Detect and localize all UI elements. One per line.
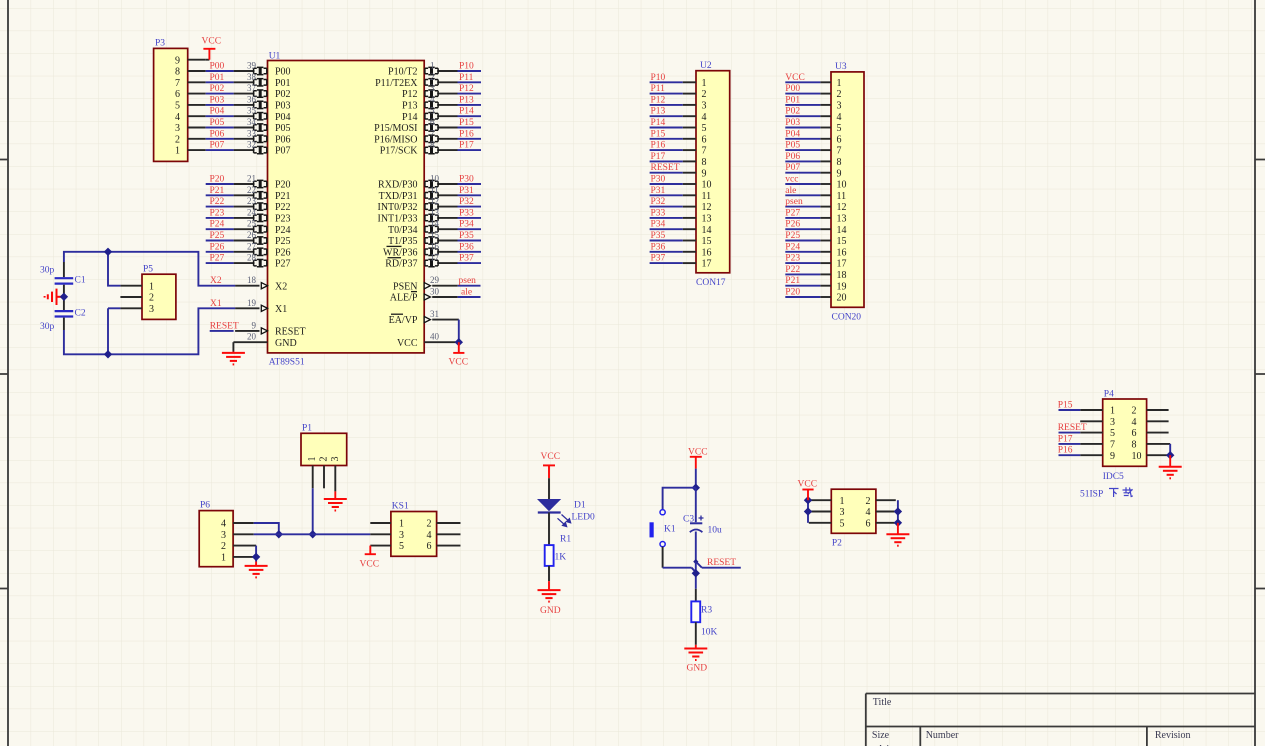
svg-text:6: 6 bbox=[175, 89, 180, 100]
wire C3 bottom to RESET node with diagonal bbox=[693, 532, 702, 568]
svg-text:K1: K1 bbox=[664, 525, 676, 535]
ground GND below R3 bbox=[684, 645, 707, 674]
wire net P12 + net label bbox=[458, 84, 482, 94]
resistor R1 1K bbox=[545, 535, 572, 566]
text 51ISP download label bbox=[1080, 487, 1133, 499]
svg-text:1: 1 bbox=[149, 281, 154, 292]
svg-text:P4: P4 bbox=[1104, 390, 1114, 400]
svg-text:P04: P04 bbox=[210, 107, 225, 117]
svg-text:51ISP: 51ISP bbox=[1080, 490, 1103, 500]
svg-text:ale: ale bbox=[785, 186, 796, 196]
wire net P05 (P3 to U1) + net label bbox=[206, 118, 234, 128]
wire D1 to R1 bbox=[548, 513, 550, 546]
svg-text:P10: P10 bbox=[651, 73, 666, 83]
svg-text:28: 28 bbox=[247, 253, 257, 263]
wire net P21 to U3 pin 19 + net label bbox=[785, 276, 820, 286]
svg-text:P27: P27 bbox=[210, 254, 225, 264]
ground between C1 and C2 (left-pointing) bbox=[45, 289, 69, 305]
svg-text:P6: P6 bbox=[200, 501, 210, 511]
wire net P22 to U3 pin 18 + net label bbox=[785, 265, 820, 275]
svg-text:7: 7 bbox=[175, 78, 180, 89]
wire net P15 to U2 pin 6 + net label bbox=[650, 129, 683, 139]
wire EA to VCC + junction bbox=[455, 320, 463, 347]
svg-text:22: 22 bbox=[247, 185, 256, 195]
svg-text:P3: P3 bbox=[155, 39, 165, 49]
svg-text:9: 9 bbox=[702, 168, 707, 179]
power VCC above K1/C3 bbox=[688, 448, 708, 469]
svg-text:RESET: RESET bbox=[707, 558, 736, 568]
connector KS1 bbox=[370, 502, 460, 557]
svg-text:CON17: CON17 bbox=[696, 278, 726, 288]
wire P6 pin 2 to pin 1 and ground + junction bbox=[252, 546, 260, 562]
wire net P06 to U3 pin 8 + net label bbox=[785, 152, 820, 162]
capacitor C3 10u (polarized) bbox=[683, 488, 722, 536]
svg-text:5: 5 bbox=[837, 123, 842, 134]
svg-text:9: 9 bbox=[252, 320, 257, 330]
svg-text:TXD/P31: TXD/P31 bbox=[379, 191, 418, 202]
svg-text:8: 8 bbox=[1132, 440, 1137, 451]
wire R1 to GND bbox=[548, 566, 550, 581]
svg-text:3: 3 bbox=[330, 457, 341, 462]
svg-text:Size: Size bbox=[872, 730, 890, 741]
connector P6 bbox=[199, 501, 256, 567]
svg-text:P21: P21 bbox=[210, 186, 225, 196]
wire crystal top loop: C1 to X2 and P5.1 bbox=[64, 252, 235, 286]
svg-text:34: 34 bbox=[247, 117, 257, 127]
svg-text:5: 5 bbox=[1110, 428, 1115, 439]
svg-text:P27: P27 bbox=[275, 259, 291, 270]
svg-text:2: 2 bbox=[149, 293, 154, 304]
ground at U1 pin 20 bbox=[222, 342, 245, 364]
svg-text:27: 27 bbox=[247, 241, 257, 251]
svg-text:RESET: RESET bbox=[275, 327, 306, 338]
net label X2 bbox=[210, 276, 222, 286]
svg-text:5: 5 bbox=[840, 518, 845, 529]
wire net P36 to U2 pin 16 + net label bbox=[650, 242, 683, 252]
svg-text:P05: P05 bbox=[275, 123, 291, 134]
wire net psen + net label bbox=[458, 276, 481, 286]
wire net P00 to U3 pin 2 + net label bbox=[785, 84, 820, 94]
svg-text:P17: P17 bbox=[459, 141, 474, 151]
wire net P20 to U3 pin 20 + net label bbox=[785, 288, 820, 298]
svg-text:P02: P02 bbox=[210, 84, 225, 94]
wire net P17 to P4 + net label bbox=[1058, 434, 1081, 444]
svg-text:P06: P06 bbox=[210, 129, 225, 139]
svg-text:18: 18 bbox=[247, 275, 257, 285]
svg-text:C2: C2 bbox=[75, 309, 86, 319]
svg-text:P26: P26 bbox=[210, 242, 225, 252]
svg-text:P13: P13 bbox=[402, 101, 418, 112]
svg-text:3: 3 bbox=[149, 304, 154, 315]
svg-text:VCC: VCC bbox=[688, 448, 708, 458]
svg-text:2: 2 bbox=[427, 519, 432, 530]
svg-text:P07: P07 bbox=[275, 146, 291, 157]
svg-text:CON20: CON20 bbox=[832, 313, 862, 323]
svg-text:2: 2 bbox=[1132, 406, 1137, 417]
svg-text:19: 19 bbox=[247, 298, 257, 308]
svg-text:P06: P06 bbox=[275, 134, 291, 145]
svg-text:10: 10 bbox=[837, 180, 847, 191]
wire net P13 to U2 pin 4 + net label bbox=[650, 107, 683, 117]
svg-text:P00: P00 bbox=[275, 67, 291, 78]
svg-text:1: 1 bbox=[837, 78, 842, 89]
ground at P1 pin 3 bbox=[324, 491, 347, 510]
wire net P37 + net label bbox=[458, 254, 482, 264]
connector U2 CON17 bbox=[683, 61, 730, 288]
svg-text:P16: P16 bbox=[459, 129, 474, 139]
svg-text:P20: P20 bbox=[210, 175, 225, 185]
svg-text:1: 1 bbox=[702, 78, 707, 89]
svg-text:37: 37 bbox=[247, 83, 257, 93]
wire net P24 + net label bbox=[206, 220, 234, 230]
svg-text:P03: P03 bbox=[275, 101, 291, 112]
wire net P35 to U2 pin 15 + net label bbox=[650, 231, 683, 241]
ground GND below R1 bbox=[538, 581, 561, 616]
svg-text:23: 23 bbox=[247, 196, 257, 206]
svg-text:P03: P03 bbox=[210, 95, 225, 105]
svg-text:P02: P02 bbox=[275, 89, 291, 100]
wire net RESET to U2 pin 9 + net label bbox=[650, 163, 683, 173]
wire net ale to U3 pin 11 + net label bbox=[785, 186, 820, 196]
svg-text:8: 8 bbox=[175, 67, 180, 78]
svg-text:P16/MISO: P16/MISO bbox=[374, 134, 417, 145]
connector P5 (crystal) bbox=[120, 265, 175, 320]
svg-text:EA/VP: EA/VP bbox=[389, 315, 418, 326]
svg-text:3: 3 bbox=[175, 123, 180, 134]
svg-text:psen: psen bbox=[785, 197, 803, 207]
svg-text:P21: P21 bbox=[785, 276, 800, 286]
wire net P14 to U2 pin 5 + net label bbox=[650, 118, 683, 128]
svg-text:P36: P36 bbox=[651, 242, 666, 252]
svg-text:14: 14 bbox=[837, 225, 847, 236]
svg-text:8: 8 bbox=[702, 157, 707, 168]
IC U1 AT89S51 bbox=[233, 52, 458, 368]
svg-text:2: 2 bbox=[837, 89, 842, 100]
svg-text:30p: 30p bbox=[40, 322, 55, 332]
svg-text:2: 2 bbox=[866, 496, 871, 507]
svg-text:P35: P35 bbox=[459, 231, 474, 241]
svg-text:P13: P13 bbox=[651, 107, 666, 117]
wire R3 to GND bbox=[695, 622, 697, 645]
wire crystal bottom loop: C2 to X1 and P5.3 bbox=[64, 308, 235, 354]
svg-text:2: 2 bbox=[175, 134, 180, 145]
wire net P25 + net label bbox=[206, 231, 234, 241]
capacitor C2 30p bbox=[40, 298, 86, 332]
svg-text:P21: P21 bbox=[275, 191, 291, 202]
svg-text:ale: ale bbox=[461, 288, 472, 298]
svg-text:3: 3 bbox=[702, 101, 707, 112]
connector U3 CON20 bbox=[820, 62, 864, 323]
wire net P12 to U2 pin 3 + net label bbox=[650, 95, 683, 105]
svg-text:RESET: RESET bbox=[1058, 423, 1087, 433]
svg-text:6: 6 bbox=[430, 117, 435, 127]
svg-text:7: 7 bbox=[837, 146, 842, 157]
svg-text:17: 17 bbox=[702, 259, 712, 270]
svg-text:P26: P26 bbox=[785, 220, 800, 230]
svg-text:P07: P07 bbox=[785, 163, 800, 173]
wire net P03 (P3 to U1) + net label bbox=[206, 95, 234, 105]
svg-text:P14: P14 bbox=[402, 112, 418, 123]
wire main bus P6.3 to KS1.3 bbox=[254, 533, 371, 535]
svg-text:P24: P24 bbox=[785, 242, 800, 252]
svg-text:16: 16 bbox=[430, 241, 440, 251]
wire net P00 (P3 to U1) + net label bbox=[206, 62, 234, 72]
svg-text:P20: P20 bbox=[275, 180, 291, 191]
wire net RESET to P4 + net label bbox=[1058, 423, 1087, 433]
svg-text:3: 3 bbox=[399, 530, 404, 541]
svg-text:14: 14 bbox=[702, 225, 712, 236]
svg-text:4: 4 bbox=[702, 112, 707, 123]
svg-text:2: 2 bbox=[221, 541, 226, 552]
wire net P05 to U3 pin 7 + net label bbox=[785, 141, 820, 151]
wire P2 right pins 2,4,6 + junctions bbox=[894, 500, 902, 527]
wire net P33 to U2 pin 13 + net label bbox=[650, 208, 683, 218]
wire net VCC to U3 pin 1 + net label bbox=[785, 73, 820, 83]
svg-text:1: 1 bbox=[221, 553, 226, 564]
svg-text:10: 10 bbox=[1132, 451, 1142, 462]
svg-text:P17/SCK: P17/SCK bbox=[380, 146, 419, 157]
svg-text:P02: P02 bbox=[785, 107, 800, 117]
wire net P03 to U3 pin 5 + net label bbox=[785, 118, 820, 128]
svg-text:P22: P22 bbox=[210, 197, 225, 207]
svg-text:RD/P37: RD/P37 bbox=[385, 259, 417, 270]
wire net P07 (P3 to U1) + net label bbox=[206, 141, 234, 151]
svg-text:5: 5 bbox=[399, 541, 404, 552]
svg-text:R1: R1 bbox=[560, 535, 571, 545]
svg-text:4: 4 bbox=[221, 519, 226, 530]
wire P6 pin 4 to bus + junction bbox=[254, 523, 283, 539]
svg-text:P2: P2 bbox=[832, 539, 842, 549]
svg-text:P23: P23 bbox=[210, 208, 225, 218]
wire VCC down to junction, branch to K1 bbox=[663, 469, 700, 510]
svg-text:VCC: VCC bbox=[397, 338, 418, 349]
wire P1 pin 1 down to bus bbox=[309, 488, 317, 538]
wire branch to P5 pin 3 + junction bbox=[104, 308, 121, 358]
wire net P01 to U3 pin 3 + net label bbox=[785, 95, 820, 105]
svg-text:9: 9 bbox=[1110, 451, 1115, 462]
svg-text:10: 10 bbox=[702, 180, 712, 191]
wire net P26 to U3 pin 14 + net label bbox=[785, 220, 820, 230]
svg-text:40: 40 bbox=[430, 332, 440, 342]
svg-text:29: 29 bbox=[430, 275, 440, 285]
svg-text:4: 4 bbox=[866, 507, 871, 518]
svg-text:P34: P34 bbox=[459, 220, 474, 230]
wire net P15 to P4 + net label bbox=[1058, 401, 1081, 411]
svg-text:6: 6 bbox=[1132, 428, 1137, 439]
svg-text:P15: P15 bbox=[1058, 401, 1073, 411]
svg-text:X2: X2 bbox=[210, 276, 222, 286]
svg-text:8: 8 bbox=[430, 140, 435, 150]
svg-text:9: 9 bbox=[837, 168, 842, 179]
svg-text:P12: P12 bbox=[402, 89, 418, 100]
svg-text:3: 3 bbox=[430, 83, 435, 93]
svg-text:P01: P01 bbox=[275, 78, 291, 89]
wire net ale + net label bbox=[458, 288, 481, 298]
svg-text:ALE/P: ALE/P bbox=[390, 293, 418, 304]
svg-text:U1: U1 bbox=[269, 52, 281, 62]
wire net P02 to U3 pin 4 + net label bbox=[785, 107, 820, 117]
svg-text:1: 1 bbox=[840, 496, 845, 507]
svg-text:P31: P31 bbox=[651, 186, 666, 196]
svg-text:GND: GND bbox=[687, 664, 708, 674]
svg-text:P06: P06 bbox=[785, 152, 800, 162]
svg-text:3: 3 bbox=[1110, 417, 1115, 428]
svg-text:24: 24 bbox=[247, 207, 257, 217]
svg-text:10K: 10K bbox=[701, 628, 718, 638]
svg-text:15: 15 bbox=[837, 236, 847, 247]
svg-text:P05: P05 bbox=[785, 141, 800, 151]
svg-text:30p: 30p bbox=[40, 266, 55, 276]
svg-text:6: 6 bbox=[427, 541, 432, 552]
svg-text:39: 39 bbox=[247, 61, 257, 71]
svg-text:1: 1 bbox=[307, 457, 318, 462]
svg-text:P23: P23 bbox=[275, 214, 291, 225]
svg-text:3: 3 bbox=[837, 101, 842, 112]
power VCC (U1 pin 40), bar below bbox=[449, 342, 469, 367]
svg-text:U2: U2 bbox=[700, 61, 712, 71]
svg-text:10u: 10u bbox=[708, 526, 723, 536]
svg-text:T1/P35: T1/P35 bbox=[388, 236, 417, 247]
svg-text:RESET: RESET bbox=[210, 321, 239, 331]
wire net P27 + net label bbox=[206, 254, 234, 264]
svg-text:VCC: VCC bbox=[798, 480, 818, 490]
svg-text:P11: P11 bbox=[459, 73, 474, 83]
svg-text:X2: X2 bbox=[275, 281, 287, 292]
svg-text:2: 2 bbox=[319, 457, 330, 462]
wire net P30 + net label bbox=[458, 175, 482, 185]
wire net P15 + net label bbox=[458, 118, 482, 128]
svg-text:P24: P24 bbox=[275, 225, 291, 236]
power VCC at KS1 pin 5 (bar below) bbox=[360, 546, 380, 570]
wire net P13 + net label bbox=[458, 95, 482, 105]
svg-text:D1: D1 bbox=[574, 501, 586, 511]
svg-text:P17: P17 bbox=[651, 152, 666, 162]
svg-text:12: 12 bbox=[837, 202, 847, 213]
svg-text:4: 4 bbox=[1132, 417, 1137, 428]
wire net P25 to U3 pin 15 + net label bbox=[785, 231, 820, 241]
svg-text:5: 5 bbox=[430, 106, 435, 116]
svg-text:1: 1 bbox=[399, 519, 404, 530]
svg-text:6: 6 bbox=[837, 134, 842, 145]
svg-text:13: 13 bbox=[430, 207, 440, 217]
svg-text:P32: P32 bbox=[459, 197, 474, 207]
ground at P6 pins 1,2 bbox=[245, 562, 268, 578]
wire net RESET (to right) + net label bbox=[702, 558, 741, 568]
wire net P16 + net label bbox=[458, 129, 482, 139]
svg-text:VCC: VCC bbox=[541, 452, 561, 462]
svg-text:1: 1 bbox=[175, 146, 180, 157]
power VCC above D1 bbox=[541, 452, 561, 478]
svg-text:INT1/P33: INT1/P33 bbox=[378, 214, 418, 225]
wire net P32 + net label bbox=[458, 197, 482, 207]
power VCC (P3 pin 9) bbox=[202, 37, 222, 60]
wire VCC to D1 bbox=[548, 478, 550, 499]
svg-text:P32: P32 bbox=[651, 197, 666, 207]
svg-text:P11/T2EX: P11/T2EX bbox=[375, 78, 418, 89]
svg-text:PSEN: PSEN bbox=[393, 281, 417, 292]
svg-text:16: 16 bbox=[702, 247, 712, 258]
svg-text:P00: P00 bbox=[210, 62, 225, 72]
connector P4 IDC5 bbox=[1080, 390, 1170, 483]
svg-text:P15: P15 bbox=[459, 118, 474, 128]
svg-text:P27: P27 bbox=[785, 208, 800, 218]
svg-text:X1: X1 bbox=[275, 304, 287, 315]
wire net P34 + net label bbox=[458, 220, 482, 230]
wire net P11 + net label bbox=[458, 73, 482, 83]
wire P4 pin 8 to pin 10 + junction bbox=[1166, 444, 1174, 460]
svg-text:21: 21 bbox=[247, 174, 256, 184]
svg-text:vcc: vcc bbox=[785, 175, 798, 185]
wire net P16 to P4 + net label bbox=[1058, 446, 1081, 456]
svg-text:3: 3 bbox=[840, 507, 845, 518]
svg-text:2: 2 bbox=[430, 72, 435, 82]
svg-text:P35: P35 bbox=[651, 231, 666, 241]
wire net P24 to U3 pin 16 + net label bbox=[785, 242, 820, 252]
connector P3 bbox=[154, 39, 206, 162]
svg-text:T0/P34: T0/P34 bbox=[388, 225, 417, 236]
svg-text:38: 38 bbox=[247, 72, 257, 82]
svg-text:P26: P26 bbox=[275, 247, 291, 258]
svg-text:P30: P30 bbox=[651, 175, 666, 185]
wire net P06 (P3 to U1) + net label bbox=[206, 129, 234, 139]
svg-text:P22: P22 bbox=[275, 202, 291, 213]
wire net P33 + net label bbox=[458, 208, 482, 218]
svg-text:P25: P25 bbox=[275, 236, 291, 247]
capacitor C1 30p bbox=[40, 262, 86, 296]
svg-text:4: 4 bbox=[175, 112, 180, 123]
wire node to R3 + junction bbox=[692, 562, 700, 602]
svg-text:1: 1 bbox=[430, 61, 435, 71]
wire net P02 (P3 to U1) + net label bbox=[206, 84, 234, 94]
svg-text:8: 8 bbox=[837, 157, 842, 168]
svg-text:P12: P12 bbox=[651, 95, 666, 105]
wire net P36 + net label bbox=[458, 242, 482, 252]
svg-text:P23: P23 bbox=[785, 254, 800, 264]
svg-text:U3: U3 bbox=[835, 62, 847, 72]
svg-text:R3: R3 bbox=[701, 606, 712, 616]
svg-text:32: 32 bbox=[247, 140, 256, 150]
svg-text:15: 15 bbox=[430, 230, 440, 240]
wire net P22 + net label bbox=[206, 197, 234, 207]
wire net P07 to U3 pin 9 + net label bbox=[785, 163, 820, 173]
svg-text:4: 4 bbox=[837, 112, 842, 123]
wire net P04 to U3 pin 6 + net label bbox=[785, 129, 820, 139]
svg-text:6: 6 bbox=[702, 134, 707, 145]
connector P2 bbox=[809, 489, 896, 548]
svg-text:P31: P31 bbox=[459, 186, 474, 196]
svg-text:33: 33 bbox=[247, 128, 257, 138]
svg-text:P15/MOSI: P15/MOSI bbox=[374, 123, 417, 134]
svg-text:12: 12 bbox=[430, 196, 439, 206]
svg-text:P16: P16 bbox=[651, 141, 666, 151]
svg-text:3: 3 bbox=[221, 530, 226, 541]
svg-text:P30: P30 bbox=[459, 175, 474, 185]
svg-text:P03: P03 bbox=[785, 118, 800, 128]
svg-text:VCC: VCC bbox=[785, 73, 805, 83]
wire net P10 to U2 pin 1 + net label bbox=[650, 73, 683, 83]
svg-text:AT89S51: AT89S51 bbox=[269, 358, 305, 368]
svg-text:4: 4 bbox=[430, 94, 435, 104]
svg-text:P25: P25 bbox=[210, 231, 225, 241]
svg-text:P36: P36 bbox=[459, 242, 474, 252]
svg-text:17: 17 bbox=[430, 253, 440, 263]
svg-text:P04: P04 bbox=[275, 112, 291, 123]
svg-text:VCC: VCC bbox=[202, 37, 222, 47]
wire branch to P5 pin 1 + junction bbox=[104, 248, 121, 286]
svg-text:26: 26 bbox=[247, 230, 257, 240]
connector P1 bbox=[301, 424, 347, 492]
wire net P17 to U2 pin 8 + net label bbox=[650, 152, 683, 162]
